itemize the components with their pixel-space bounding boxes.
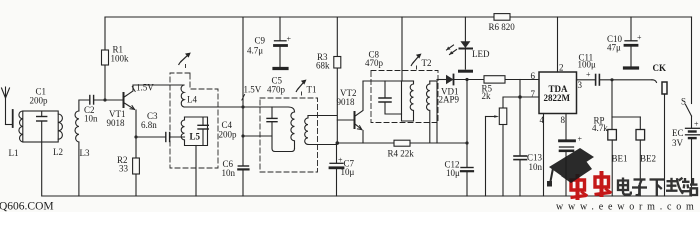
wire L4 bottom line (184, 106, 288, 108)
resistor R2 (133, 158, 140, 174)
T1 primary winding (267, 107, 295, 152)
LED (447, 17, 473, 71)
svg-text:10n: 10n (84, 114, 98, 124)
capacitor C8 (379, 81, 402, 114)
svg-text:7: 7 (531, 89, 536, 99)
resistor R4 (394, 140, 410, 146)
svg-text:BE2: BE2 (640, 154, 656, 164)
svg-text:Q606.COM: Q606.COM (0, 201, 54, 213)
svg-text:+: + (694, 120, 699, 129)
capacitor C12 (461, 80, 473, 197)
inductor L4 (181, 85, 184, 107)
svg-text:+: + (637, 33, 642, 42)
svg-text:www.eeworm.com: www.eeworm.com (556, 202, 699, 213)
svg-text:2822M: 2822M (544, 93, 571, 103)
svg-text:8: 8 (561, 115, 566, 125)
svg-text:L2: L2 (53, 147, 63, 157)
transformer T1 dashed box (260, 98, 318, 172)
capacitor C2 (90, 96, 123, 105)
inductor L5 tank loop (181, 117, 207, 146)
jack CK (652, 80, 667, 196)
inductor L3 (75, 100, 90, 196)
svg-text:C9: C9 (255, 36, 266, 46)
T2 secondary winding (427, 81, 437, 143)
transistor VT2 (355, 81, 364, 143)
main detector line (337, 142, 467, 144)
capacitor C11 (577, 75, 653, 86)
svg-text:C4: C4 (222, 120, 233, 130)
capacitor C13 (514, 80, 527, 197)
trimmer arrow T2 (411, 54, 421, 71)
T2 primary winding (402, 81, 414, 121)
top supply rail (105, 16, 692, 18)
watermark bug logo (547, 148, 594, 187)
watermark site name drawn glyphs (618, 178, 698, 196)
resistor R5 (484, 76, 505, 83)
voltage tick 1.5V T1 (242, 95, 245, 101)
svg-text:2k: 2k (482, 91, 492, 101)
inductor L1 (19, 111, 23, 142)
svg-text:1.5V: 1.5V (136, 83, 154, 93)
svg-text:10n: 10n (529, 162, 543, 172)
svg-text:6.8n: 6.8n (141, 120, 157, 130)
svg-text:T2: T2 (422, 58, 432, 68)
svg-text:470p: 470p (267, 85, 286, 95)
wire collector VT2 line (363, 80, 402, 82)
svg-text:EC: EC (672, 128, 684, 138)
svg-text:47μ: 47μ (607, 43, 621, 53)
node T1 feed junction (241, 134, 244, 137)
svg-text:+: + (287, 35, 292, 44)
watermark red char 1 (571, 174, 588, 200)
resistor R3 (334, 17, 341, 143)
wire pin7 (520, 96, 539, 98)
capacitor C10 (625, 17, 638, 68)
svg-text:200p: 200p (30, 96, 49, 106)
svg-text:100μ: 100μ (578, 60, 597, 70)
wire L5 to ground rail (195, 146, 197, 197)
svg-text:4.7μ: 4.7μ (247, 46, 263, 56)
svg-text:R6 820: R6 820 (489, 22, 516, 32)
svg-text:9018: 9018 (337, 97, 356, 107)
transistor VT1 (124, 85, 137, 196)
svg-text:CK: CK (653, 63, 667, 73)
dashed shield box L4 L5 (170, 73, 218, 168)
svg-text:S: S (681, 97, 686, 107)
capacitor C1 (37, 111, 47, 196)
diode VD1 (437, 75, 539, 85)
svg-text:10μ: 10μ (446, 168, 460, 178)
svg-text:470p: 470p (365, 58, 384, 68)
svg-text:2AP9: 2AP9 (439, 95, 460, 105)
svg-text:T1: T1 (307, 85, 317, 95)
watermark red char 2 (595, 171, 612, 197)
svg-text:100k: 100k (111, 54, 130, 64)
transformer T2 dashed box (371, 71, 438, 123)
pin2 wire (557, 17, 559, 72)
IC TDA2822M (539, 72, 577, 114)
switch S + battery EC (686, 17, 700, 196)
voltage tick 1.5V VT1 (132, 87, 135, 92)
svg-text:L5: L5 (190, 132, 201, 142)
svg-text:6: 6 (531, 71, 536, 81)
svg-text:1.5V: 1.5V (244, 85, 262, 95)
capacitor C9 (274, 17, 287, 69)
capacitor C6 (238, 166, 248, 196)
svg-text:C13: C13 (527, 153, 543, 163)
node VD1 output junction (465, 78, 468, 81)
svg-text:2: 2 (559, 63, 564, 73)
potentiometer (volume) (486, 97, 521, 196)
pin8 wire + capacitor C14 (560, 114, 575, 197)
svg-text:L1: L1 (9, 148, 19, 158)
wire collector VT1 to L4 (133, 84, 184, 86)
svg-text:R4 22k: R4 22k (388, 149, 415, 159)
svg-text:+: + (586, 70, 591, 79)
node L4 line junction (241, 105, 244, 108)
wire emitter node to C3 (136, 136, 166, 138)
svg-text:9018: 9018 (107, 118, 126, 128)
svg-text:LED: LED (472, 49, 490, 59)
svg-text:+: + (338, 156, 343, 165)
svg-text:10μ: 10μ (341, 167, 355, 177)
svg-text:L4: L4 (187, 95, 197, 105)
wire base VT2 (337, 119, 354, 121)
capacitor C7 (330, 143, 343, 196)
node emitter VT1 junction (134, 135, 137, 138)
trimmer arrow L4 (179, 53, 191, 70)
antenna (2, 87, 13, 127)
svg-text:3: 3 (578, 80, 583, 90)
svg-text:200p: 200p (219, 130, 238, 140)
svg-text:BE1: BE1 (612, 154, 628, 164)
bottom ground rail (42, 195, 692, 197)
svg-text:4.7k: 4.7k (592, 123, 608, 133)
capacitor C4 (198, 117, 208, 146)
earphones BE1 BE2 (608, 80, 645, 196)
svg-text:33: 33 (119, 164, 129, 174)
node pin7 junction (518, 95, 522, 99)
node base VT1 (103, 98, 106, 101)
T2 feed from rail (401, 17, 403, 81)
wire feed to T1 (243, 135, 272, 137)
svg-text:L3: L3 (80, 148, 90, 158)
node output line junction (610, 78, 613, 81)
svg-text:10n: 10n (222, 168, 236, 178)
svg-text:68k: 68k (316, 61, 330, 71)
resistor R6 (494, 14, 510, 21)
node C12 line junction (465, 141, 468, 144)
node detector line junction (336, 141, 340, 145)
capacitor C3 (166, 133, 185, 142)
resistor R1 (102, 17, 109, 100)
pin4 wire (543, 114, 545, 197)
svg-text:3V: 3V (672, 138, 684, 148)
svg-text:4: 4 (540, 115, 545, 125)
svg-text:+: + (578, 135, 583, 144)
wire +V vertical feed (242, 17, 244, 166)
trimmer arrow T1 (296, 80, 306, 98)
inductor L2 tank loop (23, 111, 63, 142)
T1 secondary winding (305, 116, 337, 145)
